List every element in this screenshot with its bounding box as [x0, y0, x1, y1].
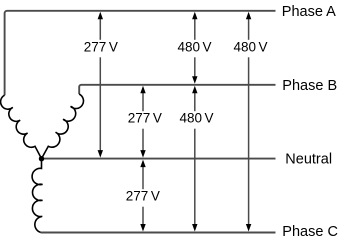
wire Phase A bus with left drop to winding	[5, 11, 276, 95]
svg-text:277 V: 277 V	[84, 39, 118, 54]
svg-text:480 V: 480 V	[177, 39, 211, 54]
node neutral star point	[39, 156, 44, 161]
wire Phase B bus with corner drop	[79, 85, 275, 94]
label 480 V (A-B)	[175, 39, 214, 57]
svg-text:480 V: 480 V	[179, 111, 213, 126]
arrow 480V Phase B to Phase C	[192, 86, 197, 232]
arrow 277V Neutral to Phase C	[140, 160, 145, 232]
label 480 V (B-C)	[177, 111, 216, 129]
label 277 V (A-N)	[81, 39, 120, 57]
arrow 480V Phase A to Phase C	[246, 12, 251, 232]
svg-text:Phase C: Phase C	[282, 224, 338, 240]
arrow 277V Phase A to Neutral	[98, 12, 103, 158]
svg-text:Phase B: Phase B	[282, 78, 337, 94]
winding phase B (right coil, 4 lobes + tail to node)	[42, 94, 84, 159]
winding phase C (bottom coil, 3 lobes + corner half-circle)	[32, 159, 42, 233]
svg-text:Phase A: Phase A	[282, 4, 336, 20]
wire Neutral bus	[42, 158, 276, 160]
winding phase A (left coil, 4 lobes + tail to node)	[1, 95, 42, 158]
label 277 V (B-N)	[125, 111, 164, 129]
arrow 277V Phase B to Neutral	[140, 86, 145, 158]
svg-text:480 V: 480 V	[233, 39, 267, 54]
label 277 V (N-C)	[123, 189, 162, 207]
svg-text:Neutral: Neutral	[285, 151, 332, 167]
wire Phase C bus	[41, 232, 276, 234]
label 480 V (A-C)	[231, 39, 270, 57]
svg-text:277 V: 277 V	[128, 111, 162, 126]
arrow 480V Phase A to Phase B	[192, 12, 197, 84]
svg-text:277 V: 277 V	[126, 189, 160, 204]
